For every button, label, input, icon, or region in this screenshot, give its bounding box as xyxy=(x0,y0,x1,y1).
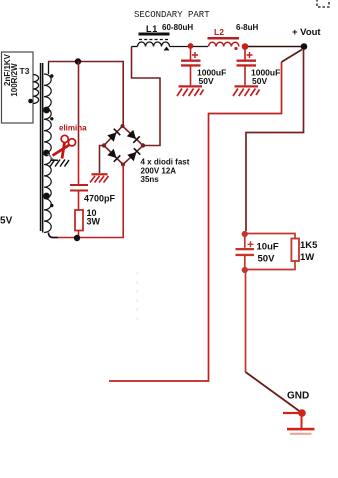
svg-text:25V: 25V xyxy=(0,216,13,227)
svg-text:4 x diodi fast: 4 x diodi fast xyxy=(141,158,190,167)
svg-text:GND: GND xyxy=(287,391,309,402)
svg-text:35ns: 35ns xyxy=(141,175,160,184)
svg-text:1W: 1W xyxy=(300,252,314,263)
svg-text:4700pF: 4700pF xyxy=(84,194,116,204)
svg-text:10uF: 10uF xyxy=(257,242,279,253)
svg-text:6-8uH: 6-8uH xyxy=(236,23,258,32)
svg-text:60-80uH: 60-80uH xyxy=(162,23,193,32)
svg-text:50V: 50V xyxy=(252,76,267,86)
svg-text:50V: 50V xyxy=(258,254,276,265)
svg-text:SECONDARY PART: SECONDARY PART xyxy=(134,10,210,20)
svg-text:100R/2W: 100R/2W xyxy=(10,63,19,97)
svg-text:elimina: elimina xyxy=(59,124,87,133)
svg-text:1K5: 1K5 xyxy=(300,240,318,251)
svg-text:50V: 50V xyxy=(199,76,214,86)
svg-text:3W: 3W xyxy=(87,217,101,227)
svg-text:L2: L2 xyxy=(214,27,224,37)
svg-text:T3: T3 xyxy=(20,66,30,76)
svg-text:+ Vout: + Vout xyxy=(292,27,321,38)
